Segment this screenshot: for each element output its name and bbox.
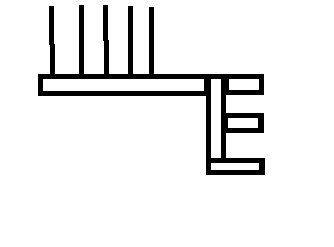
middle arm left edge widening (226, 113, 228, 133)
pin 3 lower segment (104, 40, 109, 79)
bottom arm right end cap (259, 158, 265, 175)
pin 3 upper segment (103, 5, 108, 41)
middle arm bottom edge (221, 128, 264, 133)
pin 5 (149, 7, 154, 79)
stem right edge widening at top arm corner (226, 79, 229, 95)
pin 2 (79, 5, 84, 79)
pin 1 upper segment (49, 6, 54, 45)
middle arm top edge (221, 113, 264, 118)
bus bar bottom edge (38, 91, 211, 96)
pin 1 lower segment (50, 44, 55, 79)
pin 4 (128, 6, 133, 79)
bus bar left end cap (38, 74, 43, 96)
connector stem right edge (221, 79, 226, 163)
bus bar top edge running into connector top arm (38, 74, 264, 79)
bottom arm bottom edge (206, 170, 265, 175)
top arm right end cap (259, 74, 264, 95)
middle arm right end cap (258, 113, 264, 133)
bus bar right end cap (204, 74, 211, 96)
connector stem left edge (206, 74, 211, 175)
top arm bottom edge (226, 90, 264, 95)
bottom arm top edge (211, 158, 265, 163)
